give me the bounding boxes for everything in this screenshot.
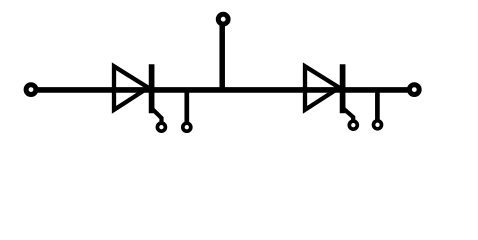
terminal 3: right main terminal <box>409 85 419 95</box>
wire: V2 auxiliary cathode lead <box>375 89 380 121</box>
terminal K1: V1 auxiliary cathode terminal ring <box>183 123 191 131</box>
wire: V1 auxiliary cathode lead <box>184 89 189 124</box>
wire: V2 gate lead (diagonal + stub) <box>343 108 354 121</box>
thyristor V2: cathode bar <box>340 64 346 113</box>
wire: V1 gate lead (diagonal + stub) <box>152 108 162 123</box>
thyristor V1 (left): anode triangle <box>114 66 148 110</box>
thyristor V1: cathode bar <box>149 64 155 113</box>
wire: main horizontal bus from left terminal to right terminal <box>31 87 414 93</box>
thyristor V2 (right): anode triangle <box>305 66 339 110</box>
terminal G1: V1 gate terminal ring <box>157 123 165 131</box>
terminal 1: left main terminal <box>26 85 36 95</box>
wire: center tap riser to top terminal <box>219 19 225 93</box>
terminal G2: V2 gate terminal ring <box>349 121 357 129</box>
terminal 2: top center-tap terminal <box>218 14 228 24</box>
terminal K2: V2 auxiliary cathode terminal ring <box>374 121 382 129</box>
